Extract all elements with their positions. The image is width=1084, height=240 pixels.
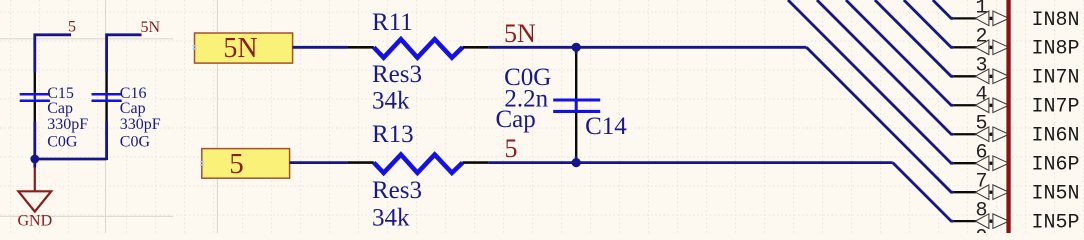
svg-text:IN6N: IN6N — [1032, 125, 1080, 148]
svg-text:34k: 34k — [372, 204, 410, 231]
svg-text:9: 9 — [975, 227, 987, 234]
svg-text:5N: 5N — [223, 33, 257, 64]
svg-text:IN5N: IN5N — [1032, 183, 1080, 206]
svg-text:5: 5 — [505, 134, 518, 163]
svg-text:5N: 5N — [504, 19, 536, 48]
svg-text:IN7P: IN7P — [1032, 96, 1080, 119]
svg-text:Res3: Res3 — [372, 61, 422, 88]
svg-text:330pF: 330pF — [47, 116, 88, 133]
svg-text:C0G: C0G — [47, 133, 78, 150]
svg-text:5N: 5N — [141, 19, 161, 36]
svg-text:5: 5 — [975, 113, 987, 136]
svg-text:Cap: Cap — [47, 100, 73, 117]
svg-text:6: 6 — [975, 142, 987, 165]
svg-text:C14: C14 — [585, 113, 627, 140]
svg-text:8: 8 — [975, 199, 987, 222]
svg-text:4: 4 — [975, 84, 987, 107]
svg-text:2: 2 — [975, 26, 987, 49]
svg-text:R13: R13 — [372, 121, 414, 148]
svg-text:IN5P: IN5P — [1032, 212, 1080, 233]
svg-text:IN7N: IN7N — [1032, 67, 1080, 90]
svg-text:7: 7 — [975, 170, 987, 193]
svg-text:Cap: Cap — [120, 100, 146, 117]
svg-text:5: 5 — [68, 18, 76, 35]
svg-text:Cap: Cap — [496, 106, 536, 133]
svg-text:IN8N: IN8N — [1032, 9, 1080, 32]
svg-text:IN6P: IN6P — [1032, 154, 1080, 177]
svg-text:C0G: C0G — [120, 133, 151, 150]
svg-text:IN8P: IN8P — [1032, 38, 1080, 61]
svg-text:5: 5 — [229, 148, 244, 180]
svg-text:GND: GND — [17, 213, 52, 230]
svg-text:34k: 34k — [372, 87, 410, 114]
svg-text:3: 3 — [975, 55, 987, 78]
svg-text:330pF: 330pF — [120, 116, 161, 133]
svg-text:R11: R11 — [372, 9, 413, 36]
svg-text:1: 1 — [975, 0, 987, 20]
svg-text:Res3: Res3 — [372, 177, 422, 204]
